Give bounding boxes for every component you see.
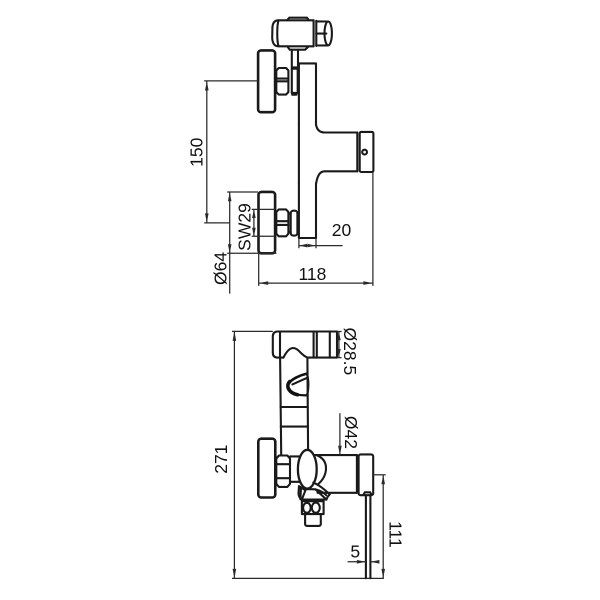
upper wall flange bbox=[258, 50, 275, 112]
svg-text:Ø28.5: Ø28.5 bbox=[340, 328, 360, 376]
sprayer head outline bbox=[273, 332, 337, 358]
pipe between nut and ball bbox=[290, 456, 299, 481]
svg-text:5: 5 bbox=[350, 541, 360, 561]
dim D64 extension top bbox=[227, 191, 258, 193]
spout end cap bbox=[360, 132, 374, 172]
spout separation bbox=[356, 133, 358, 172]
knob mid line bbox=[316, 33, 326, 35]
dim 5 line right bbox=[370, 561, 378, 563]
spout cap hole bbox=[362, 150, 367, 155]
hex nut bottom bbox=[276, 456, 290, 487]
dim 20 arrows bbox=[299, 244, 316, 248]
outlet block bbox=[302, 501, 324, 514]
dim D64 arrows bbox=[228, 192, 232, 253]
outlet right wing bbox=[313, 483, 329, 500]
trigger inner line bbox=[292, 378, 307, 385]
body left edge mid bbox=[298, 125, 300, 184]
handle collar flare bbox=[287, 47, 308, 50]
stem joint bbox=[292, 67, 298, 68]
valve cylinder top bbox=[315, 454, 357, 456]
dim 150 extension bottom bbox=[204, 222, 230, 224]
spout bottom flare bbox=[316, 171, 357, 183]
svg-text:Ø42: Ø42 bbox=[341, 416, 361, 449]
dim SW29 extensions bbox=[252, 209, 276, 236]
lower neck bbox=[288, 214, 290, 233]
handle left cap inner arc bbox=[277, 21, 278, 47]
head end line bbox=[329, 332, 331, 358]
neck peak bbox=[283, 348, 307, 358]
dim 271 line bbox=[233, 331, 235, 578]
handle top clip bbox=[287, 18, 309, 21]
stem lower bbox=[292, 69, 298, 93]
lower hex nut bbox=[276, 209, 288, 236]
dim 111 extension top bbox=[373, 474, 385, 476]
dim 5 arrows bbox=[357, 560, 380, 564]
outlet hole left bbox=[303, 503, 311, 513]
outlet top face trapezoid bbox=[302, 489, 327, 500]
dim 111 line bbox=[382, 475, 384, 579]
nut facet lines bottom bbox=[276, 464, 290, 478]
outlet left fan bbox=[299, 486, 305, 500]
stem upper bbox=[292, 50, 298, 68]
knob end ellipse bbox=[325, 22, 332, 46]
hose nipple bbox=[363, 492, 371, 495]
dim 20 extensions bbox=[299, 239, 316, 249]
stem base bbox=[292, 93, 298, 95]
ball facet curve bbox=[317, 455, 326, 485]
dim SW29 line bbox=[253, 209, 255, 236]
dim 271 extension top bbox=[232, 330, 273, 332]
dim 150 line bbox=[206, 81, 208, 223]
trigger hook thick bbox=[289, 374, 307, 384]
handle separation lines bbox=[314, 20, 317, 46]
handle ring 2 bbox=[281, 426, 308, 428]
dim 118 extension left bbox=[258, 254, 260, 286]
hose lines bbox=[366, 495, 371, 578]
main body column bbox=[299, 63, 316, 238]
head cap line bbox=[279, 332, 281, 358]
handle right edge bbox=[306, 358, 309, 451]
dim D64 line bbox=[229, 192, 231, 293]
wall flange bottom bbox=[258, 439, 275, 498]
dim 111 arrows bbox=[381, 475, 385, 579]
hose end cap bbox=[359, 454, 374, 495]
upper hex nut SW29 bbox=[276, 68, 288, 95]
dim 118 extension right bbox=[372, 173, 374, 286]
ball ellipse bbox=[298, 450, 317, 489]
lower wall flange bbox=[259, 192, 276, 253]
dim 118 line bbox=[259, 282, 373, 284]
dim 118 arrows bbox=[259, 281, 373, 285]
svg-text:SW29: SW29 bbox=[234, 203, 254, 251]
svg-text:111: 111 bbox=[385, 521, 405, 548]
dim D28.5 dim line bbox=[338, 332, 340, 358]
dim 5 line left bbox=[348, 561, 366, 563]
svg-text:271: 271 bbox=[211, 445, 231, 474]
svg-text:118: 118 bbox=[298, 264, 326, 284]
upper nut facet lines bbox=[276, 79, 288, 82]
lower nut facet lines bbox=[276, 221, 288, 225]
outlet spout bbox=[305, 514, 321, 526]
dim D42 line bbox=[339, 413, 341, 455]
spout top flare bbox=[316, 125, 357, 133]
dim D28.5 ext overhang bbox=[337, 332, 342, 358]
valve cylinder bottom bbox=[318, 492, 357, 494]
dim D42 arrow bbox=[338, 446, 342, 455]
svg-text:150: 150 bbox=[187, 137, 207, 166]
trigger right arc bbox=[307, 374, 309, 396]
svg-text:Ø64: Ø64 bbox=[211, 252, 231, 285]
dim D28.5 arrows bbox=[337, 332, 341, 358]
dim 150 extension top bbox=[204, 80, 258, 82]
handle knob bbox=[316, 21, 328, 45]
svg-text:20: 20 bbox=[332, 220, 352, 240]
dim 20 line bbox=[299, 245, 343, 247]
dim 271 extension bottom bbox=[232, 577, 384, 579]
dim 271 arrows bbox=[233, 331, 237, 578]
head ring pair bbox=[314, 332, 317, 358]
handle ring 1 bbox=[281, 406, 308, 408]
dim 150 arrows bbox=[205, 81, 209, 223]
cap separation bbox=[356, 455, 358, 493]
handle left edge bbox=[280, 358, 281, 456]
dim D64 extension bottom bbox=[227, 252, 276, 254]
dim SW29 arrows bbox=[252, 209, 256, 236]
outlet hole right bbox=[312, 503, 320, 513]
lower pipe capsule bbox=[291, 211, 298, 236]
handle lever body bbox=[272, 20, 313, 46]
